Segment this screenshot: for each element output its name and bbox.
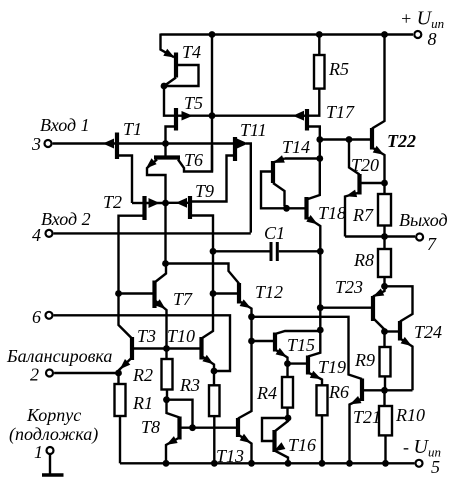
node rail T16 emitter	[285, 460, 292, 467]
svg-text:Вход 2: Вход 2	[41, 209, 91, 229]
node T5/T17 emitter rail junction	[209, 112, 216, 119]
wire T24 collector loop	[385, 286, 413, 321]
node rail R3	[211, 460, 218, 467]
svg-text:R1: R1	[132, 393, 153, 413]
node T12 emitter junction	[248, 313, 255, 320]
wire column down to T13 collector	[238, 341, 252, 419]
svg-text:Вход 1: Вход 1	[40, 115, 90, 135]
transistor T15	[275, 331, 318, 362]
svg-text:R10: R10	[395, 405, 425, 425]
wire T4 to T5 base	[164, 86, 174, 116]
ground (case) symbol	[42, 455, 64, 475]
node T2/T9 emitter junction	[162, 200, 169, 207]
wire T14 node to T18 base	[287, 207, 305, 209]
resistor R10	[379, 390, 392, 461]
wire output line	[345, 235, 415, 237]
transistor T20	[345, 140, 383, 237]
node T20 tap on T22 base line	[346, 136, 353, 143]
svg-text:T12: T12	[255, 282, 283, 302]
transistor T17	[294, 109, 320, 157]
node T4 base-collector junction	[161, 83, 168, 90]
transistor T9	[168, 196, 214, 250]
svg-text:T24: T24	[414, 322, 442, 342]
transistor T16 (diode-connected)	[262, 418, 288, 461]
svg-text:R7: R7	[352, 205, 374, 225]
node T7 base junction	[115, 290, 122, 297]
wire T18 emitter line continues	[319, 308, 321, 328]
svg-text:T20: T20	[351, 155, 379, 175]
node rail R6	[319, 460, 326, 467]
svg-text:(подложка): (подложка)	[9, 424, 98, 445]
pin 4 terminal circle	[46, 230, 53, 237]
transistor T5	[166, 108, 211, 141]
node T24 base / R9 junction	[381, 328, 388, 335]
node rail T21 emitter	[346, 460, 353, 467]
svg-text:T19: T19	[318, 357, 346, 377]
node T17 collector / T22 base junction	[316, 136, 323, 143]
node R4 bottom / T16 junction	[285, 415, 292, 422]
transistor T22	[372, 36, 385, 181]
node T10 emitter / R3 / pin6 junction	[211, 368, 218, 375]
pin 5 terminal circle	[416, 460, 423, 467]
node T15 base junction	[248, 338, 255, 345]
resistor R1	[115, 373, 126, 463]
wire junction down to T18 collector	[307, 159, 320, 200]
wire pin6 to R3 node	[54, 315, 230, 371]
wire T18 emitter line down	[319, 251, 321, 305]
capacitor C1	[213, 242, 318, 261]
resistor R2	[162, 349, 173, 398]
transistor T18	[307, 197, 321, 249]
node T14/T18 collector junction	[316, 155, 323, 162]
svg-text:3: 3	[31, 134, 41, 154]
svg-text:2: 2	[30, 365, 39, 385]
wire junction left to T14 emitter	[285, 157, 320, 159]
node T7 emitter / mirror base / R2 junction	[163, 345, 170, 352]
svg-text:R4: R4	[256, 383, 277, 403]
svg-text:T7: T7	[173, 289, 193, 309]
wire T15 base	[252, 340, 274, 342]
wire T8 base loop	[167, 400, 193, 426]
resistor R6	[317, 385, 328, 461]
wire T12 emitter column down to T15 base	[250, 317, 252, 339]
resistor R8	[378, 237, 391, 287]
wire base line to T22	[320, 138, 370, 140]
svg-text:T2: T2	[103, 192, 122, 212]
wire down to T19 collector	[308, 330, 320, 357]
wire input2 to T11 emitter	[54, 232, 251, 234]
svg-text:T8: T8	[141, 417, 160, 437]
transistor T11	[192, 137, 251, 233]
wire T8 collector to T13 base	[182, 427, 237, 429]
pin 1 terminal circle	[47, 447, 54, 454]
wire collector bus to T12	[166, 264, 240, 284]
wire input1 to T1	[53, 142, 115, 144]
node top rail junction x212	[209, 31, 216, 38]
wire T12 emitter line A to T21 collector	[252, 317, 363, 379]
svg-text:R5: R5	[328, 59, 349, 79]
svg-text:T3: T3	[137, 326, 156, 346]
svg-text:T15: T15	[287, 335, 315, 355]
node rail T13 emitter	[248, 460, 255, 467]
node top rail junction x384	[381, 31, 388, 38]
node T3 emitter / R1 junction	[115, 370, 122, 377]
node C1 right junction on T18 emitter line	[317, 248, 324, 255]
transistor T21	[350, 379, 363, 462]
node C1 left junction	[210, 248, 217, 255]
svg-text:5: 5	[431, 457, 440, 477]
wire T19 base	[288, 362, 307, 364]
wire +V drop to emitter rail	[211, 35, 213, 172]
node R8 bottom / T23 collector junction	[381, 283, 388, 290]
svg-text:T17: T17	[326, 102, 355, 122]
transistor T2	[119, 196, 164, 292]
node T14 collector / T18 base junction	[283, 205, 290, 212]
node R9/R10/T21 base/T24 emitter junction	[381, 387, 388, 394]
pin 6 terminal circle	[46, 312, 53, 319]
node top rail junction x319	[316, 31, 323, 38]
resistor R9	[380, 332, 391, 389]
wire T7 base	[119, 292, 153, 294]
svg-text:R2: R2	[132, 365, 153, 385]
wire pin2 to T3 emitter node	[54, 372, 118, 374]
svg-text:C1: C1	[264, 223, 285, 243]
transistor T7	[155, 266, 167, 347]
node T22 emitter / T20 / R7 junction	[381, 180, 388, 187]
svg-text:T5: T5	[184, 93, 203, 113]
svg-text:T6: T6	[184, 150, 203, 170]
svg-text:T1: T1	[123, 119, 142, 139]
pin 2 terminal circle	[46, 370, 53, 377]
wire base line to T11	[166, 142, 234, 144]
svg-text:T9: T9	[195, 181, 214, 201]
node T1 base / T5 collector junction	[162, 140, 169, 147]
svg-text:Корпус: Корпус	[26, 405, 81, 425]
transistor T13	[238, 418, 252, 461]
transistor T23	[373, 288, 385, 329]
wire T21 base	[364, 389, 385, 391]
svg-text:1: 1	[34, 442, 43, 462]
transistor T1	[104, 133, 164, 204]
resistor R3	[209, 371, 220, 461]
svg-text:R3: R3	[179, 375, 200, 395]
wire T6 emitter node down to collector bus	[164, 203, 166, 262]
wire T9 column continues to T10 collector	[202, 294, 214, 339]
transistor T3	[119, 337, 164, 371]
svg-text:T16: T16	[288, 435, 316, 455]
node T15 emitter / R4 / T19 base junction	[284, 360, 291, 367]
svg-text:Выход: Выход	[399, 210, 448, 230]
resistor R7	[378, 183, 391, 235]
svg-text:R9: R9	[354, 350, 375, 370]
wire T24 base	[385, 330, 399, 332]
svg-text:T14: T14	[282, 137, 310, 157]
pin 7 terminal circle	[416, 234, 423, 241]
svg-text:6: 6	[32, 307, 41, 327]
transistor T6 (horizontal bar)	[147, 144, 212, 202]
node R2 bottom / T8 junction	[163, 396, 170, 403]
wire bottom -V rail	[120, 462, 414, 464]
node rail T8 emitter	[163, 460, 170, 467]
node T8 loop / T13 base line junction	[189, 424, 196, 431]
transistor T12	[239, 283, 252, 315]
svg-text:R8: R8	[353, 250, 374, 270]
transistor T10	[168, 337, 214, 369]
svg-text:T22: T22	[387, 131, 416, 151]
pin 3 terminal circle	[45, 140, 52, 147]
wire T24 emitter to junction	[385, 389, 413, 391]
transistor T4 (PNP diode-connected)	[161, 34, 199, 87]
svg-text:T4: T4	[182, 42, 201, 62]
transistor T8 (diode-connected)	[166, 400, 180, 462]
node T12 base junction	[210, 290, 217, 297]
svg-text:T23: T23	[335, 277, 363, 297]
svg-text:T21: T21	[353, 407, 381, 427]
svg-text:T10: T10	[167, 326, 195, 346]
wire top +V rail	[161, 33, 414, 35]
svg-text:7: 7	[427, 234, 437, 254]
node T15 collector junction	[317, 327, 324, 334]
resistor R4	[282, 364, 293, 416]
wire common emitter rail T5-T17	[212, 114, 305, 116]
svg-text:4: 4	[32, 225, 41, 245]
pin 8 terminal circle	[414, 31, 421, 38]
transistor T14 (PNP diode-connected)	[261, 156, 285, 208]
svg-text:8: 8	[428, 29, 437, 49]
svg-text:T11: T11	[240, 120, 267, 140]
svg-text:R6: R6	[328, 382, 349, 402]
wire T12 base	[213, 292, 237, 294]
wire T2 L column down to T3 collector	[119, 294, 133, 339]
resistor R5	[309, 35, 325, 116]
svg-text:T18: T18	[318, 203, 346, 223]
svg-text:Балансировка: Балансировка	[6, 346, 112, 366]
node T7/T12 collector bus junction	[162, 260, 169, 267]
node T23 base junction	[317, 304, 324, 311]
wire T9 collector column down	[212, 251, 214, 291]
node R7/R8 output junction	[381, 233, 388, 240]
wire T23 base	[320, 307, 371, 309]
transistor T24	[400, 321, 413, 390]
transistor T19	[308, 356, 322, 386]
node rail R10	[382, 460, 389, 467]
